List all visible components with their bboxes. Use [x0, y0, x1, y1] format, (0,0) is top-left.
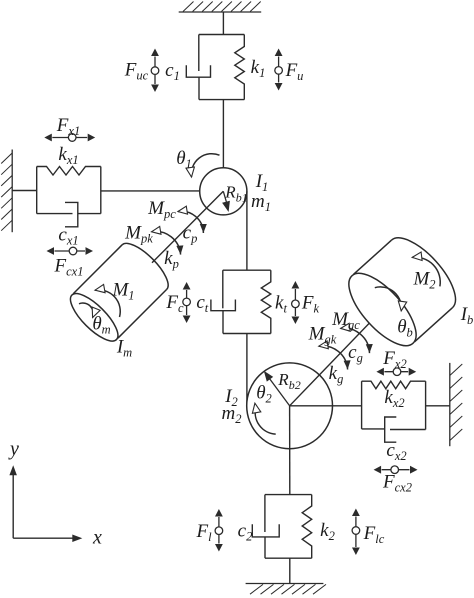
- svg-text:kt: kt: [275, 293, 287, 316]
- svg-text:Fl: Fl: [195, 521, 212, 544]
- moment arc M_pc: [178, 206, 207, 233]
- svg-text:Im: Im: [116, 337, 132, 360]
- wire bracket x1 to bearing1: [101, 190, 224, 192]
- svg-text:y: y: [8, 438, 19, 460]
- label M_gk: [308, 324, 337, 347]
- spring k1: [235, 35, 245, 100]
- axis y: [9, 465, 17, 538]
- label F_cx2: [382, 472, 412, 495]
- svg-text:ct: ct: [196, 292, 208, 315]
- svg-text:Fcx1: Fcx1: [54, 256, 84, 279]
- motor cylinder M1 body: [64, 237, 175, 348]
- bearing disc I1 (circle): [200, 168, 247, 215]
- label F_l: [195, 521, 212, 544]
- force F_x1 arrow: [44, 134, 95, 142]
- label theta_1: [176, 148, 192, 171]
- damper c_x1: [37, 202, 101, 226]
- label m_1: [251, 191, 271, 214]
- label F_lc: [363, 523, 385, 546]
- ground (top ceiling hatch): [179, 2, 262, 13]
- svg-text:kg: kg: [329, 363, 344, 386]
- force F_lc arrow: [352, 509, 360, 556]
- wall (right hatch): [450, 363, 463, 446]
- svg-text:Fuc: Fuc: [124, 60, 149, 83]
- label F_x2: [382, 348, 406, 371]
- label k_1: [251, 57, 266, 80]
- label theta_m: [92, 314, 110, 337]
- force F_k arrow: [292, 281, 300, 324]
- label M_2: [412, 269, 435, 292]
- damper c_2: [252, 495, 279, 559]
- label k_p: [164, 248, 179, 271]
- moment arc M_pk: [152, 226, 184, 254]
- shaft bearing2 to gear: [290, 310, 383, 406]
- svg-text:Mpc: Mpc: [147, 198, 176, 221]
- svg-text:Mgc: Mgc: [331, 309, 360, 332]
- suspension frame top (c1,k1 bracket): [199, 35, 245, 100]
- force F_x2 arrow: [376, 368, 416, 376]
- svg-text:Ib: Ib: [460, 304, 474, 327]
- ground (bottom hatch): [246, 584, 326, 595]
- svg-text:cx2: cx2: [386, 440, 406, 463]
- svg-text:kx2: kx2: [384, 387, 404, 410]
- rotation arrow theta_2: [252, 403, 275, 434]
- svg-text:Fk: Fk: [301, 293, 320, 316]
- svg-text:m2: m2: [222, 403, 242, 426]
- label M_gc: [331, 309, 360, 332]
- force F_c arrow: [183, 282, 191, 323]
- damper c_t: [211, 270, 236, 333]
- wire bearing2 right: [290, 405, 362, 407]
- label I_b: [460, 304, 474, 327]
- svg-text:Mpk: Mpk: [124, 223, 153, 246]
- svg-text:Fu: Fu: [285, 60, 304, 83]
- label m_2: [222, 403, 242, 426]
- svg-text:m1: m1: [251, 191, 271, 214]
- label k_t: [275, 293, 287, 316]
- force F_cx1 arrow: [47, 247, 94, 255]
- moment arrow M1: [95, 284, 120, 317]
- label c_x1: [58, 225, 78, 248]
- label x axis: [92, 527, 102, 549]
- label F_c: [165, 292, 184, 315]
- svg-text:M1: M1: [111, 280, 134, 303]
- wire bracket t to bearing2: [246, 334, 248, 406]
- svg-text:M2: M2: [412, 269, 435, 292]
- svg-text:Fc: Fc: [165, 292, 184, 315]
- label k_2: [320, 520, 335, 543]
- svg-text:x: x: [92, 527, 102, 549]
- rotation arrow theta_m: [79, 303, 100, 317]
- svg-text:cg: cg: [348, 342, 363, 365]
- label theta_2: [256, 383, 272, 406]
- radius arrow R_b1: [222, 191, 230, 212]
- label c_t: [196, 292, 208, 315]
- label F_uc: [124, 60, 149, 83]
- rotation arrow theta_1: [186, 154, 220, 177]
- axis x: [13, 535, 82, 543]
- svg-text:c2: c2: [238, 521, 253, 544]
- label R_b1: [224, 183, 247, 205]
- shaft motor to bearing1: [152, 191, 223, 262]
- label k_x1: [58, 144, 78, 167]
- wire wall to bracket x1: [12, 190, 37, 192]
- svg-text:cx1: cx1: [58, 225, 78, 248]
- bearing disc I2 (circle): [247, 363, 333, 449]
- label R_b2: [277, 370, 300, 392]
- svg-text:k1: k1: [251, 57, 266, 80]
- gear cylinder M2 body: [338, 228, 467, 357]
- wall (left hatch): [1, 150, 12, 233]
- wire bracket x2 to wall: [426, 405, 450, 407]
- spring k_t: [261, 270, 271, 333]
- moment arrow M2: [412, 252, 440, 286]
- svg-text:Flc: Flc: [363, 523, 385, 546]
- svg-text:cp: cp: [183, 223, 198, 246]
- wire bearing1 to bracket t: [246, 191, 248, 270]
- label c_x2: [386, 440, 406, 463]
- suspension frame left (kx1,cx1 bracket): [37, 167, 101, 214]
- label c_p: [183, 223, 198, 246]
- label M_1: [111, 280, 134, 303]
- rotation arrow theta_b: [375, 287, 407, 311]
- damper c1: [186, 35, 210, 100]
- label c_g: [348, 342, 363, 365]
- label c_1: [165, 60, 180, 83]
- suspension frame right (kx2,cx2 bracket): [362, 381, 426, 429]
- label I_m: [116, 337, 132, 360]
- label F_x1: [56, 115, 80, 138]
- spring k_x2: [362, 381, 426, 389]
- spring k_x1: [37, 167, 101, 176]
- damper c_x2: [362, 417, 426, 442]
- label M_pc: [147, 198, 176, 221]
- force F_uc arrow: [151, 49, 159, 93]
- label theta_b: [397, 317, 413, 340]
- label I_1: [255, 171, 269, 194]
- suspension frame bottom (c2,k2 bracket): [265, 495, 312, 559]
- wire bracket2 to ground: [289, 558, 291, 583]
- svg-text:Fx2: Fx2: [382, 348, 406, 371]
- radius arrow R_b2: [264, 371, 290, 406]
- force F_l arrow: [215, 509, 223, 552]
- svg-text:θ1: θ1: [176, 148, 192, 171]
- svg-text:Fcx2: Fcx2: [382, 472, 412, 495]
- svg-text:c1: c1: [165, 60, 180, 83]
- label M_pk: [124, 223, 153, 246]
- moment arc M_gc: [341, 323, 373, 353]
- moment arc M_gk: [319, 341, 351, 370]
- label F_u: [285, 60, 304, 83]
- svg-text:Fx1: Fx1: [56, 115, 80, 138]
- spring k_2: [302, 495, 312, 559]
- svg-text:kx1: kx1: [58, 144, 78, 167]
- label c_2: [238, 521, 253, 544]
- suspension frame middle (ct,kt bracket): [223, 270, 271, 333]
- wire bracket1 to bearing1: [222, 100, 224, 192]
- label y axis: [8, 438, 19, 460]
- label F_k: [301, 293, 320, 316]
- label F_cx1: [54, 256, 84, 279]
- force F_cx2 arrow: [374, 466, 418, 474]
- label k_x2: [384, 387, 404, 410]
- svg-text:k2: k2: [320, 520, 335, 543]
- wire ceiling stem: [222, 12, 224, 35]
- svg-text:kp: kp: [164, 248, 179, 271]
- label k_g: [329, 363, 344, 386]
- force F_u arrow: [275, 49, 283, 91]
- label I_2: [224, 386, 238, 409]
- wire bearing2 down: [289, 406, 291, 495]
